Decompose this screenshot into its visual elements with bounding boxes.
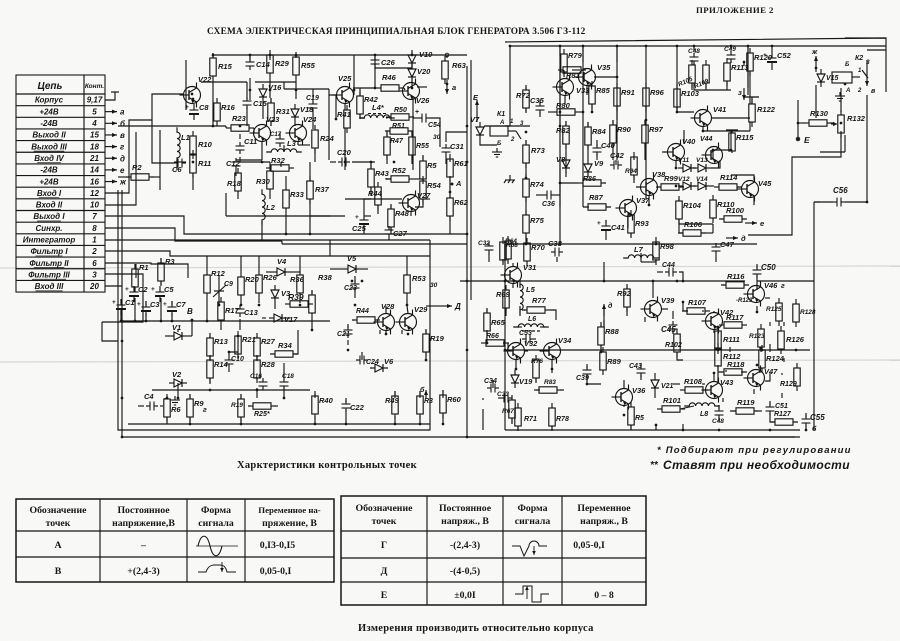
resistor R71 <box>515 403 521 431</box>
resistor R49 <box>385 391 400 419</box>
wire <box>679 224 683 233</box>
wire <box>517 426 519 430</box>
svg-text:точек: точек <box>372 516 397 527</box>
wire <box>565 159 567 177</box>
resistor R1 <box>132 263 149 292</box>
resistor R27 <box>254 333 276 361</box>
wire <box>191 320 193 326</box>
transistor V26 <box>399 79 431 106</box>
resistor R26 <box>256 270 278 298</box>
svg-text:V17: V17 <box>284 315 298 324</box>
svg-text:Переменное на-: Переменное на- <box>258 505 321 515</box>
transistor V42 <box>702 308 735 334</box>
svg-text:R55: R55 <box>416 143 429 150</box>
wire <box>360 114 365 118</box>
wire <box>293 330 298 354</box>
wire <box>540 350 544 352</box>
node е arrow <box>745 221 757 225</box>
svg-text:R18: R18 <box>227 179 242 188</box>
wire <box>526 243 528 244</box>
capacitor C3 <box>137 300 160 317</box>
resistor R44 <box>368 182 383 210</box>
svg-text:R117: R117 <box>726 313 744 322</box>
svg-text:R16: R16 <box>221 103 236 112</box>
svg-text:Постоянное: Постоянное <box>439 503 492 514</box>
svg-text:V12: V12 <box>678 176 690 183</box>
capacitor C34 <box>487 384 499 393</box>
svg-text:R93: R93 <box>635 219 650 228</box>
svg-text:R15: R15 <box>218 62 233 71</box>
wire <box>662 151 668 153</box>
svg-text:L7: L7 <box>634 245 644 254</box>
wire <box>759 368 761 373</box>
wire <box>798 122 805 124</box>
scan fold line <box>0 266 900 268</box>
svg-text:R94: R94 <box>625 168 637 175</box>
resistor R55 <box>293 52 316 80</box>
wire <box>522 309 527 311</box>
svg-text:г: г <box>781 283 785 290</box>
resistor R14 <box>207 355 229 383</box>
wire <box>295 55 297 58</box>
wire <box>375 319 377 321</box>
resistor R31 <box>268 98 290 126</box>
wire <box>329 89 336 95</box>
wire <box>482 409 484 430</box>
resistor R86 <box>578 180 606 186</box>
svg-text:1: 1 <box>92 236 97 245</box>
wire <box>314 416 316 424</box>
svg-text:R108: R108 <box>684 377 703 386</box>
wire <box>209 378 211 384</box>
svg-text:R91: R91 <box>621 88 635 97</box>
wire <box>240 394 242 398</box>
wire <box>280 397 282 399</box>
wire <box>414 178 423 180</box>
svg-text:д: д <box>608 302 613 310</box>
wire <box>240 300 242 305</box>
svg-text:L2: L2 <box>266 203 276 212</box>
svg-text:R30: R30 <box>256 177 271 186</box>
svg-text:R70: R70 <box>531 243 546 252</box>
wire <box>269 55 271 60</box>
transistor V25 <box>333 74 354 108</box>
wire <box>630 233 632 237</box>
svg-text:Обозначение: Обозначение <box>356 503 414 514</box>
resistor R105 <box>689 60 695 88</box>
node Д arrow <box>440 304 452 308</box>
svg-text:R54: R54 <box>427 181 442 190</box>
wire <box>623 405 625 407</box>
wire <box>411 155 413 164</box>
wire <box>757 280 814 282</box>
wire <box>712 117 750 119</box>
wire <box>866 95 868 202</box>
wire <box>411 52 413 54</box>
inductor L3 <box>266 139 302 152</box>
resistor R112 <box>715 343 741 371</box>
wire filter bus <box>122 320 330 322</box>
wire <box>486 330 488 343</box>
svg-text:V24: V24 <box>303 115 317 124</box>
resistor R9 <box>187 394 205 422</box>
capacitor C7 <box>163 300 186 317</box>
svg-text:18: 18 <box>90 142 99 151</box>
capacitor C15 <box>243 97 268 109</box>
wire to K1 <box>484 46 510 126</box>
resistor R72 <box>516 85 531 113</box>
wire <box>476 110 478 122</box>
wire <box>352 319 355 321</box>
svg-text:С56: С56 <box>833 186 848 195</box>
wire <box>159 130 161 190</box>
wire <box>486 309 488 313</box>
svg-text:С45: С45 <box>661 325 676 334</box>
resistor R98 <box>653 237 675 265</box>
svg-text:К1: К1 <box>497 111 505 118</box>
wire <box>430 305 440 307</box>
wire <box>602 351 604 353</box>
inductor L4* <box>359 115 395 118</box>
wire top bus left <box>212 54 467 56</box>
resistor R77 <box>522 296 550 313</box>
resistor R16 <box>214 98 236 126</box>
wire <box>379 330 381 334</box>
capacitor C12 <box>226 158 241 170</box>
inductor L6 <box>513 324 549 327</box>
svg-text:R26: R26 <box>263 273 278 282</box>
wire <box>693 167 696 169</box>
wire <box>177 383 179 398</box>
wire <box>648 195 650 205</box>
node А <box>451 183 454 186</box>
wire <box>749 71 751 104</box>
wire filter II <box>105 263 188 278</box>
resistor R126 <box>778 326 805 354</box>
resistor R48 <box>388 204 410 232</box>
wire <box>385 306 387 313</box>
resistor R110 <box>710 195 735 223</box>
wire <box>717 365 719 382</box>
svg-text:R63: R63 <box>452 61 467 70</box>
svg-text:C13: C13 <box>244 308 259 317</box>
svg-text:R69: R69 <box>496 290 511 299</box>
svg-text:В: В <box>187 307 193 316</box>
wire <box>693 63 695 65</box>
wire <box>711 185 714 187</box>
resistor R91 <box>614 83 635 111</box>
wire <box>713 311 715 313</box>
resistor R113 <box>724 58 749 86</box>
transistor V36 <box>612 385 647 410</box>
svg-text:+: + <box>597 220 601 227</box>
svg-text:Д: Д <box>381 566 388 577</box>
wire <box>353 55 355 95</box>
wire <box>503 342 504 344</box>
diode V17 <box>269 314 298 324</box>
wire <box>449 176 451 184</box>
wire <box>517 326 522 328</box>
wire <box>559 160 561 183</box>
svg-text:R78: R78 <box>556 416 569 423</box>
svg-text:2: 2 <box>91 247 97 256</box>
svg-text:V11: V11 <box>678 157 689 164</box>
wire <box>370 367 372 369</box>
diode V12 <box>678 182 696 190</box>
resistor R85 <box>589 81 611 109</box>
wire <box>328 95 330 160</box>
wire <box>422 179 424 181</box>
wire <box>370 187 372 196</box>
svg-text:+(2,4-3): +(2,4-3) <box>127 566 160 577</box>
wire vertical bus A <box>466 66 468 437</box>
wire <box>645 106 647 120</box>
wire <box>519 284 521 288</box>
resistor R75 <box>523 210 545 238</box>
wire <box>249 55 251 60</box>
svg-text:R111: R111 <box>723 335 740 344</box>
wire <box>237 336 239 354</box>
wire <box>657 271 663 273</box>
wire <box>311 290 313 294</box>
svg-text:V8: V8 <box>556 155 566 164</box>
capacitor C48b <box>715 407 724 419</box>
svg-text:напряж., В: напряж., В <box>580 516 628 527</box>
wire <box>572 69 580 71</box>
svg-text:R104: R104 <box>683 201 702 210</box>
wire <box>151 176 160 178</box>
transistor V44 <box>702 143 723 168</box>
inductor L7 <box>623 245 659 258</box>
capacitor C8 <box>185 103 209 120</box>
svg-text:R40: R40 <box>319 396 334 405</box>
wire <box>564 95 566 105</box>
wire <box>171 313 173 321</box>
resistor R28 <box>254 355 276 383</box>
resistor R73 <box>523 140 546 168</box>
wire <box>344 104 346 110</box>
wire <box>386 131 388 137</box>
svg-text:R90: R90 <box>617 125 632 134</box>
node а arrow <box>445 84 449 94</box>
wire <box>718 371 723 373</box>
capacitor C10 <box>225 356 234 368</box>
wire <box>551 426 553 430</box>
svg-text:R88: R88 <box>605 327 620 336</box>
transistor V45 <box>738 177 773 202</box>
wire <box>283 145 285 152</box>
svg-text:R118: R118 <box>727 360 745 369</box>
wire <box>703 126 750 131</box>
diode V21 <box>651 375 659 393</box>
wire <box>128 423 430 425</box>
capacitor C54 <box>418 114 430 123</box>
resistor R43 <box>368 164 390 192</box>
wire <box>225 126 227 128</box>
wire <box>309 162 311 181</box>
wire <box>283 388 285 398</box>
wire <box>679 223 713 225</box>
svg-text:C11: C11 <box>244 137 257 146</box>
wire <box>394 416 396 424</box>
svg-text:9,17: 9,17 <box>87 96 103 105</box>
wire <box>354 276 356 282</box>
wire <box>519 306 521 316</box>
svg-text:а: а <box>452 83 456 92</box>
resistor R12 <box>204 269 226 298</box>
wire filter III <box>102 274 143 322</box>
svg-text:V26: V26 <box>416 96 430 105</box>
wire <box>411 55 413 56</box>
wire <box>844 135 846 152</box>
svg-text:15: 15 <box>90 131 99 140</box>
wire <box>192 153 194 155</box>
diode V3 <box>271 285 291 303</box>
pin wire а <box>105 108 125 117</box>
resistor R29 <box>267 50 290 78</box>
wire <box>314 148 316 162</box>
svg-text:R5: R5 <box>635 415 644 422</box>
svg-text:С34: С34 <box>484 378 497 385</box>
wire <box>556 257 558 262</box>
wire <box>712 199 714 200</box>
wire <box>248 405 250 407</box>
resistor R23 <box>226 114 254 131</box>
svg-text:R79: R79 <box>568 51 583 60</box>
wire <box>661 308 668 310</box>
wire <box>679 186 684 188</box>
resistor R24 <box>312 125 335 153</box>
resistor R74 <box>523 174 545 202</box>
svg-text:V35: V35 <box>597 63 611 72</box>
wire <box>408 130 413 132</box>
wire <box>582 46 584 200</box>
wire <box>660 408 662 410</box>
svg-text:+: + <box>151 286 155 293</box>
wire <box>269 55 271 58</box>
svg-text:-R123: -R123 <box>736 298 753 304</box>
svg-text:Измерения производить относите: Измерения производить относительно корпу… <box>358 623 594 634</box>
svg-text:Вход IV: Вход IV <box>34 154 64 163</box>
wire <box>209 336 211 338</box>
resistor R11 <box>190 150 211 178</box>
transistor V46 <box>744 281 779 307</box>
wire <box>603 182 606 184</box>
wire <box>524 350 528 352</box>
svg-text:R67: R67 <box>502 408 514 415</box>
potentiometer R132 <box>831 110 866 138</box>
wire <box>539 112 541 117</box>
wire <box>160 258 162 263</box>
svg-text:±0,0I: ±0,0I <box>454 590 476 601</box>
wire <box>311 318 313 330</box>
svg-text:V13: V13 <box>696 157 708 164</box>
svg-text:з: з <box>738 88 742 97</box>
diode V2 <box>169 370 187 387</box>
svg-text:V9: V9 <box>594 159 604 168</box>
wire <box>730 61 732 63</box>
wire <box>676 45 678 48</box>
wire <box>374 68 376 88</box>
wire <box>299 298 301 303</box>
capacitor C23 <box>351 280 360 292</box>
svg-text:R80: R80 <box>556 101 571 110</box>
wire <box>480 140 497 145</box>
wire <box>390 205 392 209</box>
svg-text:V34: V34 <box>558 336 572 345</box>
wire <box>374 55 376 57</box>
wire <box>261 234 263 241</box>
svg-text:R39: R39 <box>288 292 304 302</box>
wire <box>282 243 467 245</box>
svg-text:R29: R29 <box>275 59 290 68</box>
wire <box>845 201 867 203</box>
wire <box>769 344 771 352</box>
svg-text:21: 21 <box>89 154 99 163</box>
svg-text:R38: R38 <box>318 273 333 282</box>
svg-text:R12: R12 <box>211 269 226 278</box>
svg-text:L8: L8 <box>700 411 708 418</box>
capacitor C49 <box>727 51 736 63</box>
wire <box>420 198 430 200</box>
svg-text:R13: R13 <box>214 337 229 346</box>
wire <box>539 100 541 104</box>
wire <box>845 37 886 39</box>
resistor R42 <box>357 91 379 119</box>
resistor R100 <box>719 206 747 222</box>
wire <box>446 55 448 58</box>
inductor L1 <box>177 127 190 163</box>
resistor R37 <box>307 176 330 204</box>
wire <box>694 83 731 90</box>
wire <box>616 106 618 120</box>
svg-text:+: + <box>415 109 419 116</box>
svg-text:Е: Е <box>804 135 810 145</box>
capacitor C47 <box>712 240 735 255</box>
wire <box>482 398 484 400</box>
wire <box>840 88 842 112</box>
svg-text:R83: R83 <box>544 379 556 386</box>
capacitor C5 <box>151 285 174 302</box>
svg-text:Выход II: Выход II <box>32 131 66 140</box>
svg-text:C1: C1 <box>125 298 135 307</box>
svg-text:V20: V20 <box>417 67 431 76</box>
wire left bus <box>118 190 128 430</box>
node д arrow2 <box>602 304 606 316</box>
wire <box>283 363 285 378</box>
wire <box>375 57 412 68</box>
inductor L5 <box>520 279 536 315</box>
resistor R63 <box>442 56 467 84</box>
resistor R41 <box>337 105 351 133</box>
svg-text:напряж., В: напряж., В <box>441 516 489 527</box>
transistor V31 <box>501 263 537 288</box>
svg-text:R51: R51 <box>392 123 405 130</box>
wire <box>600 345 602 352</box>
wire <box>672 331 674 334</box>
svg-text:C52: C52 <box>777 51 792 60</box>
wire <box>406 256 408 270</box>
wire <box>748 133 841 235</box>
wire <box>550 310 556 320</box>
wire <box>134 287 136 290</box>
svg-text:-24В: -24В <box>40 119 58 128</box>
svg-text:+: + <box>125 286 129 293</box>
resistor R80 <box>552 101 580 115</box>
wire <box>404 88 405 90</box>
wire <box>580 111 583 113</box>
svg-text:C15: C15 <box>253 99 268 108</box>
